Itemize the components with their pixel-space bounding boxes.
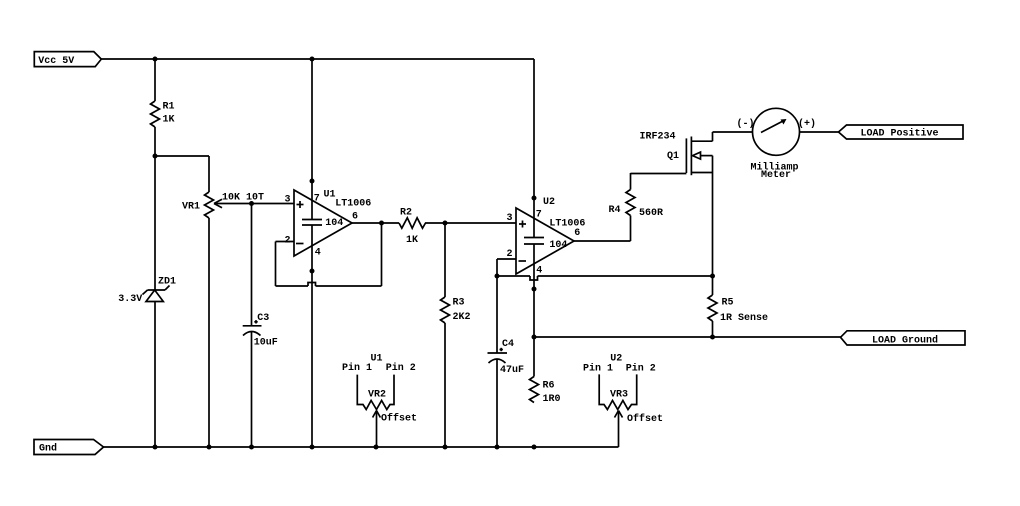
wire R1 bottom to VR1 branch node: [154, 127, 156, 290]
capacitor C4 47uF: [488, 276, 525, 447]
wire VR1 wiper to U1 pin3: [214, 203, 294, 205]
svg-text:Meter: Meter: [761, 170, 791, 181]
wire R3 bottom to ground: [444, 323, 446, 447]
potentiometer VR1 10K 10T: [182, 192, 264, 218]
svg-text:LT1006: LT1006: [549, 219, 585, 230]
wire R4 top to Q1 gate: [631, 173, 687, 190]
resistor R2 1K: [399, 208, 426, 247]
svg-text:R1: R1: [163, 102, 175, 113]
node U2 pin2/C4/sense junction: [495, 274, 500, 279]
svg-text:Gnd: Gnd: [39, 443, 57, 455]
svg-text:4: 4: [315, 248, 321, 259]
svg-text:Pin 2: Pin 2: [626, 363, 656, 375]
svg-text:U1: U1: [324, 190, 336, 201]
wire meter to LOAD Positive flag: [800, 131, 839, 133]
svg-text:ZD1: ZD1: [158, 276, 176, 287]
svg-text:1K: 1K: [406, 235, 418, 246]
svg-text:3: 3: [285, 195, 291, 206]
node gnd VR2: [374, 445, 379, 450]
svg-text:R4: R4: [609, 205, 621, 216]
wire R2 to U2 pin3: [425, 222, 516, 224]
wire U1 pin4 to ground: [311, 225, 313, 447]
wire Vcc top rail: [101, 58, 534, 60]
node gnd R1/ZD1: [153, 445, 158, 450]
power flag Vcc 5V: [34, 52, 101, 67]
svg-text:VR1: VR1: [182, 202, 200, 213]
resistor R4 560R: [609, 190, 664, 220]
resistor R1: [151, 101, 175, 127]
svg-text:104: 104: [549, 240, 567, 251]
svg-text:LT1006: LT1006: [335, 199, 371, 210]
svg-text:IRF234: IRF234: [640, 132, 676, 143]
wire U1 output: [352, 222, 399, 224]
wire VR1 bottom lead to ground: [208, 218, 210, 447]
svg-text:R5: R5: [722, 298, 734, 309]
node U2 pin4: [532, 287, 537, 292]
node R2/R3 junction: [443, 221, 448, 226]
svg-text:VR3: VR3: [610, 390, 628, 401]
node U1 pin4: [310, 269, 315, 274]
op-amp U1 LT1006: [285, 190, 372, 259]
node gnd R3: [443, 445, 448, 450]
svg-text:Pin 1: Pin 1: [583, 363, 613, 375]
port flag LOAD Positive: [839, 125, 964, 140]
wire U2 pin4 down: [533, 244, 535, 377]
node gnd C4: [495, 445, 500, 450]
wire R3 top lead: [444, 223, 446, 297]
transistor Q1 IRF234: [640, 132, 713, 277]
svg-text:(+): (+): [798, 118, 816, 130]
node R1/VR1 junction: [153, 154, 158, 159]
port flag LOAD Ground: [841, 331, 966, 347]
svg-text:(-): (-): [737, 118, 755, 130]
resistor R5 1R Sense: [708, 276, 768, 337]
wire U1 pin7 from rail: [311, 59, 313, 220]
svg-text:C3: C3: [257, 313, 269, 324]
svg-text:1K: 1K: [163, 115, 175, 126]
svg-text:R2: R2: [400, 208, 412, 219]
svg-text:104: 104: [325, 218, 343, 229]
node gnd C3: [249, 445, 254, 450]
node Vcc/U1 pin7 branch junction: [310, 57, 315, 62]
node R5 top junction: [710, 274, 715, 279]
svg-text:7: 7: [314, 194, 320, 205]
svg-text:R3: R3: [453, 298, 465, 309]
svg-text:1R0: 1R0: [543, 394, 561, 405]
svg-text:3.3V: 3.3V: [118, 294, 142, 305]
wire LOAD Ground rail: [534, 336, 841, 338]
node load ground/U2 pin4 junction: [532, 335, 537, 340]
svg-text:6: 6: [352, 212, 358, 223]
wire U2 output to R4: [574, 216, 631, 242]
node U2 pin7: [532, 196, 537, 201]
svg-text:LOAD Ground: LOAD Ground: [872, 334, 938, 346]
trimmer VR2 Offset (U1): [342, 354, 417, 448]
node U1 output/feedback junction: [379, 221, 384, 226]
ground flag Gnd: [34, 440, 104, 455]
node gnd R6: [532, 445, 537, 450]
svg-text:560R: 560R: [639, 208, 663, 219]
wire R1 top lead: [154, 59, 156, 101]
svg-text:Q1: Q1: [667, 151, 679, 162]
wire VR1 top branch: [155, 155, 209, 157]
node gnd U1 pin4: [310, 445, 315, 450]
svg-text:7: 7: [536, 210, 542, 221]
svg-text:LOAD Positive: LOAD Positive: [861, 128, 939, 140]
svg-text:3: 3: [507, 213, 513, 224]
wire ground rail: [104, 446, 619, 448]
node Vcc/R1 junction: [153, 57, 158, 62]
zener diode ZD1 3.3V: [118, 276, 176, 305]
svg-text:Pin 1: Pin 1: [342, 362, 372, 374]
svg-text:R6: R6: [543, 381, 555, 392]
capacitor 104 (U2 decoupling): [524, 238, 567, 252]
svg-text:Pin 2: Pin 2: [386, 362, 416, 374]
capacitor C3 10uF: [243, 204, 278, 448]
node wiper/C3 junction: [249, 201, 254, 206]
wire sense line to R5 top: [497, 276, 713, 280]
wire ZD1 anode to ground: [154, 302, 156, 448]
svg-text:VR2: VR2: [368, 390, 386, 401]
svg-text:Offset: Offset: [381, 413, 417, 425]
capacitor 104 (U1 decoupling): [302, 218, 343, 229]
wire U2 pin2 to sense line: [497, 259, 516, 276]
resistor R6 1R0: [530, 377, 561, 406]
svg-text:Vcc 5V: Vcc 5V: [38, 56, 74, 67]
resistor R3 2K2: [441, 297, 471, 323]
svg-text:10uF: 10uF: [254, 338, 278, 349]
svg-text:C4: C4: [502, 339, 514, 350]
svg-text:Offset: Offset: [627, 413, 663, 425]
node gnd VR1: [207, 445, 212, 450]
milliamp meter: [737, 108, 817, 181]
svg-text:10K 10T: 10K 10T: [222, 193, 264, 204]
trimmer VR3 Offset (U2): [583, 354, 663, 448]
node R5 bottom junction: [710, 335, 715, 340]
wire U2 pin7 from rail: [533, 59, 535, 238]
wire Q1 drain to meter: [713, 131, 753, 133]
wire U1 pin2 feedback loop: [276, 223, 382, 286]
svg-text:6: 6: [574, 228, 580, 239]
svg-text:1R Sense: 1R Sense: [720, 313, 768, 324]
svg-text:U1: U1: [371, 354, 383, 365]
svg-text:47uF: 47uF: [500, 365, 524, 376]
node U1 pin7: [310, 179, 315, 184]
svg-text:2K2: 2K2: [453, 312, 471, 323]
svg-text:U2: U2: [543, 197, 555, 208]
op-amp U2 LT1006: [507, 197, 586, 277]
svg-text:4: 4: [536, 266, 542, 277]
